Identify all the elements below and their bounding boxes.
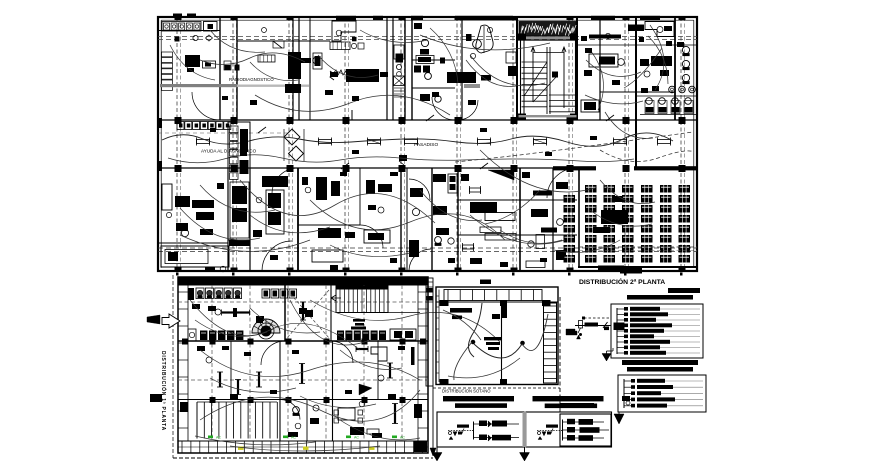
svg-text:PASADISO: PASADISO	[414, 142, 438, 148]
svg-text:AC: AC	[291, 436, 296, 440]
svg-text:DISTRIBUCIÓN 2ª PLANTA: DISTRIBUCIÓN 2ª PLANTA	[579, 277, 665, 286]
svg-text:AYUDA AL DIAGNOSTICO: AYUDA AL DIAGNOSTICO	[201, 149, 257, 154]
svg-text:RADIODIAGNOSTICO: RADIODIAGNOSTICO	[229, 77, 274, 82]
svg-text:AC: AC	[354, 436, 359, 440]
svg-text:AC: AC	[216, 436, 221, 440]
svg-text:DISTRIBUCION SOTANO: DISTRIBUCION SOTANO	[442, 389, 491, 394]
svg-text:DISTRIBUCIÓN 1ª PLANTA: DISTRIBUCIÓN 1ª PLANTA	[160, 351, 168, 431]
svg-text:AC: AC	[400, 436, 405, 440]
